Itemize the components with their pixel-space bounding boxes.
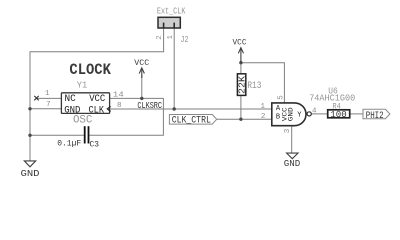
svg-text:7: 7 — [46, 101, 51, 109]
svg-text:VCC: VCC — [134, 58, 149, 68]
svg-text:1: 1 — [261, 103, 266, 111]
svg-text:2: 2 — [261, 113, 266, 121]
svg-text:0.1µF: 0.1µF — [57, 138, 81, 148]
svg-text:GND: GND — [288, 107, 295, 121]
svg-text:VCC: VCC — [233, 38, 247, 48]
svg-text:CLKSRC: CLKSRC — [137, 101, 162, 111]
svg-text:1: 1 — [167, 35, 175, 40]
svg-text:R13: R13 — [247, 81, 261, 92]
svg-text:14: 14 — [113, 91, 125, 99]
svg-text:22K: 22K — [238, 75, 248, 94]
svg-text:C3: C3 — [90, 139, 100, 149]
svg-text:GND: GND — [284, 158, 301, 169]
svg-text:5: 5 — [277, 95, 285, 100]
svg-text:B: B — [276, 113, 280, 121]
svg-text:8: 8 — [117, 102, 122, 110]
svg-text:VCC: VCC — [89, 94, 105, 105]
svg-text:OSC: OSC — [73, 115, 93, 127]
svg-text:GND: GND — [21, 168, 40, 179]
svg-text:3: 3 — [284, 128, 292, 133]
svg-text:Y1: Y1 — [77, 81, 88, 91]
svg-text:Ext_CLK: Ext_CLK — [157, 7, 186, 17]
svg-text:CLOCK: CLOCK — [69, 61, 111, 79]
svg-text:4: 4 — [312, 108, 317, 116]
svg-text:NC: NC — [65, 94, 76, 105]
svg-text:1: 1 — [45, 90, 50, 98]
svg-text:CLK_CTRL: CLK_CTRL — [172, 116, 211, 127]
svg-text:R4: R4 — [332, 102, 341, 112]
svg-text:J2: J2 — [181, 35, 189, 45]
svg-text:2: 2 — [156, 35, 164, 40]
svg-text:PHI2: PHI2 — [366, 110, 384, 122]
